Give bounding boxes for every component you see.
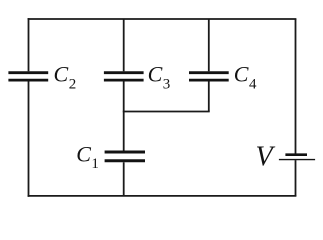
wire left lower (C2 to bottom rail) xyxy=(28,82,30,197)
wire middle mid (C3 to C1) xyxy=(123,82,125,151)
wire right lower (battery to bottom rail) xyxy=(295,160,297,196)
svg-text:V: V xyxy=(256,142,276,173)
capacitor C2 plates xyxy=(8,73,48,80)
capacitor C4 plates xyxy=(189,73,229,80)
wire bottom rail xyxy=(28,195,297,197)
wire middle lower (C1 to bottom rail) xyxy=(123,162,125,196)
capacitor C1 plates xyxy=(105,152,145,161)
capacitor C3 plates xyxy=(104,73,144,80)
battery V symbol xyxy=(279,155,315,160)
wire C4 branch upper (top rail to C4) xyxy=(208,19,210,71)
wire left upper (top rail to C2) xyxy=(28,18,30,71)
wire C4 branch lower (C4 to inner rail) xyxy=(208,82,210,112)
wire inner horizontal rail (node joining C3 and C4 bottoms) xyxy=(123,111,210,113)
wire middle upper (top rail to C3) xyxy=(123,19,125,71)
wire right upper (top rail to battery) xyxy=(295,19,297,154)
wire top rail xyxy=(28,18,297,20)
